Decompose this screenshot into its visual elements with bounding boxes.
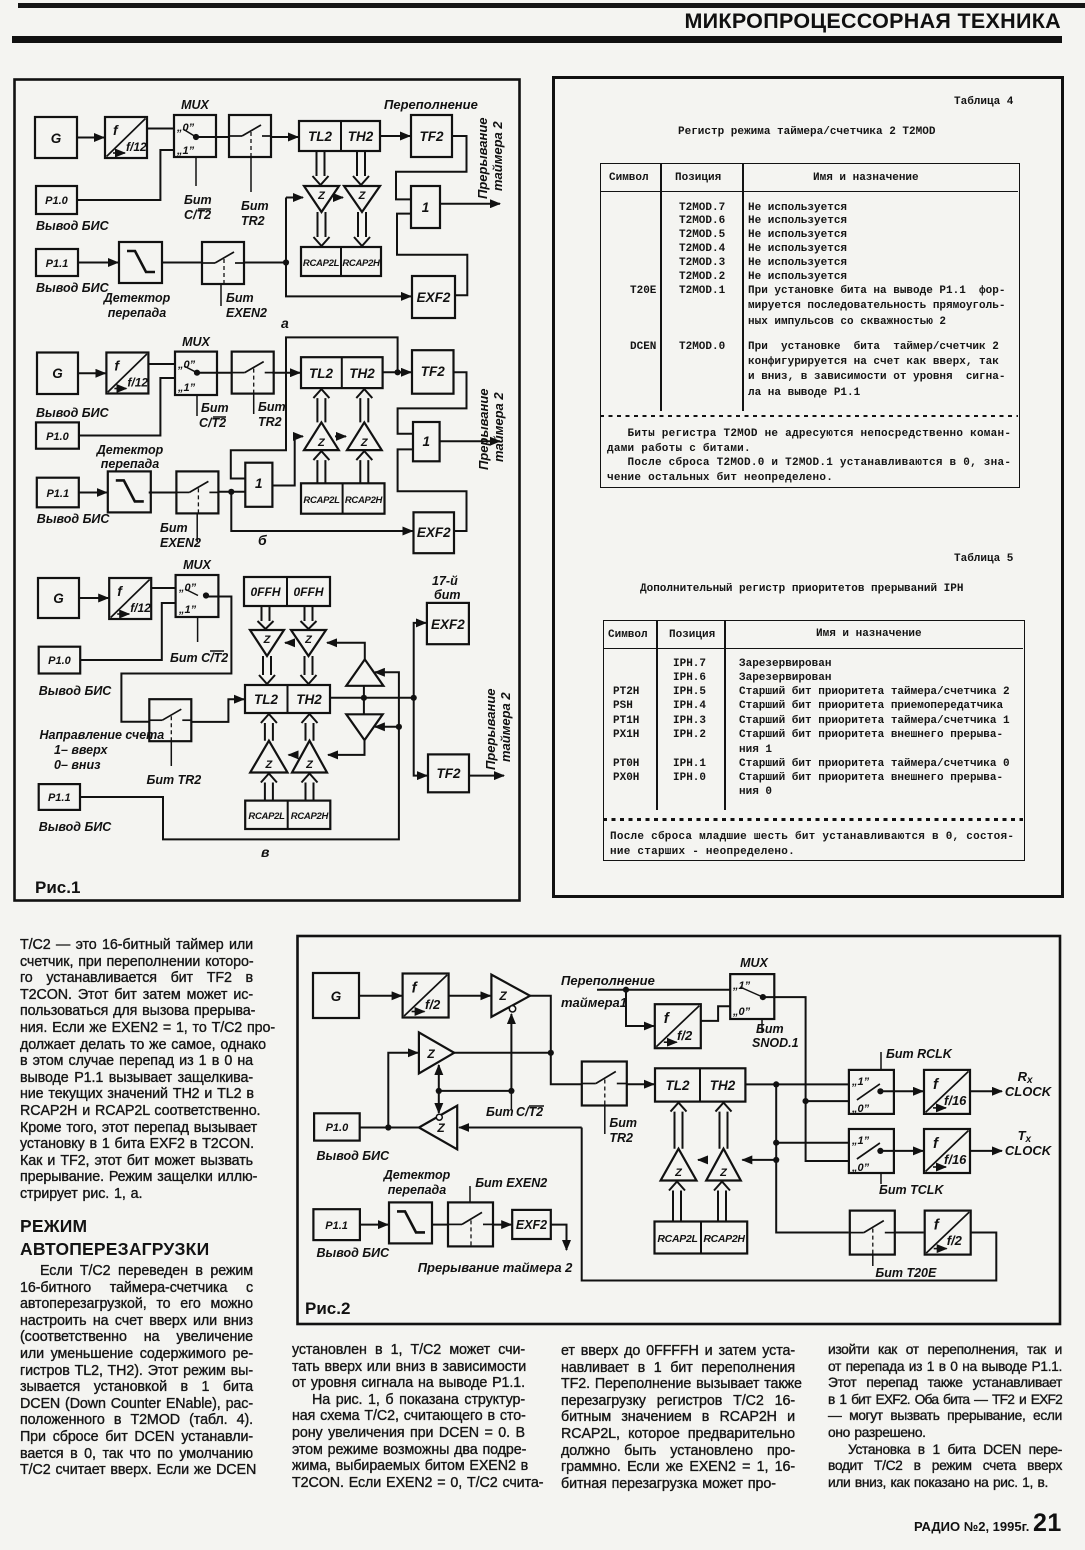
svg-text:C/T2: C/T2 [516, 1105, 543, 1119]
svg-text:в: в [261, 844, 270, 860]
svg-text:Бит C/T2: Бит C/T2 [170, 651, 228, 665]
svg-text:Детектор: Детектор [96, 443, 164, 457]
svg-text:Направление счета: Направление счета [40, 728, 165, 742]
svg-text:RCAP2L: RCAP2L [248, 811, 285, 822]
wire f/16 to Tx [970, 1150, 1002, 1152]
svg-text:Вывод БИС: Вывод БИС [39, 684, 113, 698]
divider f/12 [105, 117, 147, 158]
svg-text:f/2: f/2 [425, 997, 441, 1012]
block G (б) [37, 353, 78, 395]
svg-text:TL2: TL2 [309, 366, 333, 381]
svg-text:Вывод БИС: Вывод БИС [36, 281, 110, 295]
node a junction [283, 259, 289, 265]
svg-text:1: 1 [422, 200, 430, 215]
hollow arrow Z to TL2 fig2 [671, 1103, 687, 1149]
wire TH2 to TF2 a [380, 135, 410, 137]
port P1.1 (в) [39, 784, 80, 810]
svg-text:„0”: „0” [177, 359, 196, 371]
svg-text:TR2: TR2 [609, 1131, 633, 1145]
svg-text:Z: Z [358, 190, 367, 202]
control stub EXEN2 a [220, 284, 222, 306]
hollow arrow OFFH to Z left (в) [258, 606, 274, 629]
svg-text:Переполнение: Переполнение [561, 973, 655, 988]
register TL2 TH2 (в) [245, 685, 330, 713]
divider f/16 tx [924, 1129, 970, 1173]
label Прерывание таймера 2 (в) [483, 689, 513, 771]
node latch strobe branch fig2 [773, 1157, 779, 1163]
wire C/T2 control line [439, 1090, 512, 1092]
divider f/12 (в) [109, 578, 151, 619]
svg-text:RCAP2L: RCAP2L [303, 495, 340, 506]
flag EXF2 (б) [414, 512, 455, 553]
table 5 [954, 553, 1013, 565]
svg-text:RCAP2H: RCAP2H [703, 1233, 745, 1245]
wire OR1 to latch strobe (б) [272, 436, 303, 485]
wire RCLK to f/16 [880, 1090, 923, 1092]
svg-text:TH2: TH2 [348, 129, 374, 144]
svg-text:TR2: TR2 [258, 415, 282, 429]
hollow arrow RCAP2H to Z (б) [356, 451, 372, 483]
node Z1-Z2 join [548, 1050, 554, 1056]
control stub EXEN2 (б) [196, 514, 198, 542]
node RCLK 0 branch [803, 1098, 809, 1104]
port P1.1 a [36, 249, 78, 276]
switch RCLK [849, 1070, 894, 1114]
wire EXF2 interrupt out fig2 [551, 1225, 567, 1250]
wire switch TR2 to TL2 fig2 [627, 1083, 654, 1085]
svg-text:17-й: 17-й [432, 574, 458, 588]
node TCLK wiper [877, 1148, 883, 1154]
register RCAP2L RCAP2H a [301, 247, 381, 276]
svg-text:Рис.2: Рис.2 [305, 1299, 350, 1318]
svg-text:Бит: Бит [609, 1116, 637, 1130]
block G (oscillator) [35, 117, 77, 158]
hollow arrow RCAP2L to Z (б) [313, 451, 329, 483]
svg-text:Вывод БИС: Вывод БИС [36, 219, 110, 233]
wire Z3 to P1.0 [360, 1127, 419, 1129]
svg-text:„1”: „1” [851, 1135, 870, 1147]
register TL2 TH2 fig2 [655, 1068, 745, 1101]
node EXEN2 branch (б) [228, 489, 234, 495]
switch EXEN2 fig2 [448, 1202, 493, 1246]
control stub EXEN2 fig2 [469, 1186, 471, 1202]
svg-text:таймера 2: таймера 2 [498, 692, 513, 762]
wire TF2 to OR gate a [396, 136, 467, 199]
node direction control (в) [396, 724, 402, 730]
svg-text:TH2: TH2 [349, 366, 375, 381]
node TH2 branch [773, 1081, 779, 1087]
svg-text:EXF2: EXF2 [417, 290, 451, 305]
control stub T2OE [872, 1255, 874, 1267]
wire into Z3 [459, 1127, 582, 1129]
wire G to f/2 [359, 995, 402, 997]
hollow arrow RCAP2L to Zup (в) [261, 774, 277, 801]
wire switch EXEN2 to OR1 (б) [218, 491, 245, 493]
svg-text:Прерывание: Прерывание [475, 118, 490, 200]
label Прерывание таймера 2 (a) [475, 118, 505, 200]
wire f/2 to MUX 0 [701, 1006, 730, 1021]
wire P1.1 to detector (б) [79, 492, 107, 494]
hollow arrow Z to TL2 (б) [313, 389, 329, 422]
svg-text:Бит: Бит [201, 401, 229, 415]
flag TF2 a [411, 115, 452, 157]
control stub TCLK [880, 1173, 882, 1184]
wire P1.0 to Z2 [388, 1053, 418, 1128]
svg-text:EXEN2: EXEN2 [226, 306, 267, 320]
svg-text:C/T2: C/T2 [199, 416, 226, 430]
svg-text:Z: Z [719, 1167, 728, 1179]
svg-text:Бит T20E: Бит T20E [875, 1266, 937, 1280]
edge detector (б) [108, 471, 151, 512]
svg-text:TH2: TH2 [296, 692, 322, 707]
svg-text:0– вниз: 0– вниз [54, 758, 101, 772]
control stub SMOD [761, 1019, 763, 1033]
svg-text:f/12: f/12 [127, 376, 148, 390]
latch Z a right [344, 186, 380, 212]
svg-text:P1.0: P1.0 [326, 1122, 350, 1134]
hollow arrow RCAP2H to Z fig2 [714, 1182, 730, 1222]
wire control to Z1 [510, 1014, 512, 1091]
node MUX a output [193, 134, 199, 140]
svg-text:P1.1: P1.1 [325, 1220, 348, 1232]
svg-text:Детектор: Детектор [383, 1168, 451, 1182]
flag TF2 (в) [428, 754, 469, 792]
divider f/2 out [925, 1211, 971, 1255]
wire TH2 branch down to T2OE [776, 1084, 849, 1232]
wire G to f/12 [77, 137, 104, 139]
control stub TR2 a [250, 157, 252, 192]
wire MUX a to switch TR2 [196, 136, 229, 138]
svg-text:Z: Z [317, 190, 326, 202]
switch T2OE [850, 1211, 895, 1255]
wire f/2 to buffer Z1 [449, 995, 491, 997]
svg-text:Бит: Бит [756, 1022, 784, 1036]
latch Z a left [304, 186, 339, 212]
wire P1.0 to MUX (б) [79, 378, 175, 436]
svg-text:CLOCK: CLOCK [1005, 1143, 1053, 1158]
wire P1.1 direction control (в) [80, 672, 399, 839]
svg-text:SNOD.1: SNOD.1 [752, 1036, 799, 1050]
register TL2 TH2 a [299, 121, 380, 151]
svg-text:Z: Z [498, 989, 507, 1003]
wire switch to TL2 (б) [272, 372, 300, 374]
wire detector to switch EXEN2 a [162, 262, 202, 264]
svg-text:Z: Z [360, 437, 369, 449]
wire TH2 to TF2 (б) [383, 371, 411, 373]
label Прерывание таймера 2 (б) [476, 389, 506, 471]
svg-text:таймера 2: таймера 2 [491, 392, 506, 462]
buffer Z2 [419, 1032, 454, 1073]
svg-text:P1.0: P1.0 [45, 195, 69, 207]
wire arrow to down-buffer (в) [375, 726, 399, 728]
MUX (б) [175, 352, 217, 395]
svg-text:„0”: „0” [176, 122, 195, 134]
svg-text:G: G [53, 591, 64, 606]
wire arrow between Z down (в) [285, 642, 291, 644]
wire to RCLK 0 input [806, 1100, 849, 1102]
svg-text:CLOCK: CLOCK [1005, 1084, 1053, 1099]
svg-text:f/16: f/16 [944, 1152, 967, 1167]
wire to EXF2 (в) [414, 623, 426, 698]
svg-text:TL2: TL2 [254, 692, 278, 707]
hollow arrow RCAP2L to Z fig2 [669, 1182, 685, 1222]
register TL2 TH2 (б) [301, 357, 383, 388]
inverter circle Z3 [436, 1114, 442, 1120]
divider f/2 input [403, 974, 449, 1018]
svg-text:EXEN2: EXEN2 [160, 536, 201, 550]
control stub RCLK [880, 1052, 882, 1070]
MUX (в) [176, 575, 219, 617]
svg-text:TF2: TF2 [419, 129, 443, 144]
svg-text:TH2: TH2 [710, 1078, 736, 1093]
control stub TR2 fig2 [604, 1106, 606, 1135]
svg-text:перепада: перепада [108, 306, 166, 320]
wire arrow between Z a [334, 197, 343, 199]
buffer down (в) [346, 714, 382, 740]
hollow arrow Z to TH2 fig2 [716, 1103, 732, 1149]
wire TH2 to RCLK 1 [745, 1083, 849, 1085]
hollow arrow Zup to TH2 (в) [302, 714, 318, 741]
divider f/2 smod [655, 1004, 701, 1048]
node TCLK 1 branch [773, 1140, 779, 1146]
svg-text:EXF2: EXF2 [516, 1218, 547, 1232]
svg-text:таймера1: таймера1 [561, 995, 627, 1010]
edge detector fig2 [389, 1202, 432, 1243]
svg-text:P1.1: P1.1 [48, 792, 71, 804]
svg-text:TF2: TF2 [436, 766, 460, 781]
node P1.0 branch [385, 1124, 391, 1130]
svg-text:Бит: Бит [486, 1105, 514, 1119]
switch TCLK [849, 1129, 894, 1173]
wire Z2 output [454, 1052, 551, 1054]
svg-text:RCAP2H: RCAP2H [345, 495, 384, 506]
svg-text:Бит EXEN2: Бит EXEN2 [475, 1176, 547, 1190]
svg-text:Рис.1: Рис.1 [35, 878, 80, 897]
svg-text:б: б [258, 532, 267, 548]
wire f to MUX (в) [151, 587, 176, 589]
svg-text:TL2: TL2 [308, 129, 332, 144]
node on TF2 wire (б) [395, 369, 401, 375]
block G (в) [38, 578, 79, 618]
svg-text:RCAP2H: RCAP2H [342, 258, 381, 269]
svg-text:f/12: f/12 [126, 140, 147, 154]
wire MUX to switch TR2 (в) [121, 597, 231, 722]
svg-text:RCAP2L: RCAP2L [657, 1233, 697, 1245]
svg-text:Вывод БИС: Вывод БИС [37, 512, 111, 526]
svg-text:f/2: f/2 [677, 1028, 693, 1043]
wire OR2 output interrupt (б) [440, 440, 500, 442]
svg-text:Вывод БИС: Вывод БИС [317, 1149, 391, 1163]
port P1.0 (в) [39, 647, 80, 674]
svg-text:Z: Z [436, 1121, 445, 1135]
or-gate 1 right (б) [413, 422, 440, 461]
svg-text:Z: Z [674, 1167, 683, 1179]
node MUX fig2 output [760, 994, 766, 1000]
control stub C/T2 a [195, 157, 197, 186]
node ctl left [436, 1088, 442, 1094]
svg-text:„1”: „1” [176, 145, 195, 157]
svg-text:P1.0: P1.0 [46, 431, 70, 443]
wire overflow loop to OR1 (б) [231, 337, 398, 478]
svg-text:перепада: перепада [101, 457, 159, 471]
svg-text:Бит: Бит [258, 400, 286, 414]
wire TCLK to f/16 [880, 1150, 923, 1152]
wire switch EXEN2 to node a [244, 262, 286, 264]
wire Z2 control [438, 1065, 440, 1091]
wire arrow between Z (б) [335, 435, 346, 437]
MUX (fig2) [730, 974, 774, 1019]
wire to TF2 (в) [414, 698, 427, 776]
svg-text:Бит TR2: Бит TR2 [147, 773, 202, 787]
flag EXF2 fig2 [512, 1210, 551, 1239]
or-gate 1 left (б) [245, 463, 272, 507]
wire TF2 to OR2 (б) [398, 372, 467, 433]
switch EXEN2 a [202, 242, 244, 284]
hollow arrow TH2 to Z [353, 151, 369, 185]
wire f/16 to Rx [970, 1090, 1002, 1092]
wire to TCLK 1 input [776, 1142, 849, 1144]
port P1.1 fig2 [313, 1209, 360, 1240]
svg-text:P1.1: P1.1 [46, 488, 69, 500]
buffer Z3 [419, 1106, 457, 1150]
svg-text:„0”: „0” [851, 1103, 870, 1115]
svg-text:1: 1 [423, 434, 431, 449]
wire to EXF2 (б) [231, 492, 412, 531]
figure 1 frame [15, 80, 520, 901]
wire EXF2 to OR2 (б) [398, 449, 467, 531]
wire clock out feedback [582, 1128, 997, 1281]
wire switch TR2 to TL2 [271, 136, 298, 138]
svg-text:бит: бит [434, 588, 461, 602]
figure 2 frame [298, 936, 1061, 1324]
svg-text:G: G [52, 366, 63, 381]
hollow arrow Z to TL2 (в) [259, 656, 275, 684]
svg-text:Прерывание таймера 2: Прерывание таймера 2 [418, 1260, 573, 1275]
svg-text:f/12: f/12 [130, 601, 151, 615]
svg-text:MUX: MUX [740, 956, 768, 970]
wire buffers tie vertical (в) [363, 686, 365, 715]
svg-text:MUX: MUX [182, 335, 210, 349]
svg-text:Бит: Бит [160, 521, 188, 535]
svg-text:1– вверх: 1– вверх [54, 743, 108, 757]
svg-text:Вывод БИС: Вывод БИС [36, 406, 110, 420]
wire EXF2 to OR a [397, 214, 467, 296]
or-gate 1 a [411, 186, 440, 228]
wire up-buffer to Z strobe (в) [327, 643, 365, 660]
svg-text:„0”: „0” [178, 582, 197, 594]
svg-text:Z: Z [263, 634, 272, 646]
svg-text:P1.1: P1.1 [46, 258, 69, 270]
control stub C/T2 fig2 [510, 1091, 512, 1110]
wire Z3 control [438, 1091, 440, 1113]
hollow arrow RCAP2H to Zup (в) [302, 774, 318, 801]
svg-text:Бит: Бит [184, 193, 212, 207]
svg-text:Прерывание: Прерывание [476, 389, 491, 471]
svg-text:„1”: „1” [851, 1076, 870, 1088]
hollow arrow TL2 to Z [313, 151, 329, 185]
register RCAP2L RCAP2H (б) [301, 483, 385, 513]
register RCAP2L RCAP2H (в) [245, 801, 330, 829]
register RCAP2L RCAP2H fig2 [655, 1222, 748, 1254]
wire detector to switch fig2 [432, 1224, 448, 1226]
svg-text:Z: Z [265, 759, 274, 771]
svg-text:Прерывание: Прерывание [483, 689, 498, 771]
wire T2OE to f/2 [895, 1232, 924, 1234]
wire G to f (б) [78, 372, 105, 374]
wire P1.0 to MUX a [77, 150, 174, 200]
svg-text:„0”: „0” [851, 1162, 870, 1174]
svg-text:MUX: MUX [183, 558, 211, 572]
svg-text:G: G [51, 131, 62, 146]
wire OR output interrupt a [440, 203, 500, 205]
wire latch strobe a [286, 198, 411, 297]
divider f/12 (б) [106, 353, 148, 394]
hollow arrow Z to RCAP2L [314, 212, 330, 246]
svg-text:Бит: Бит [226, 291, 254, 305]
buffer Z1 [491, 975, 530, 1017]
latch Z up left fig2 [661, 1149, 697, 1181]
control stub TR2 (в) [170, 741, 172, 766]
svg-text:Переполнение: Переполнение [384, 97, 478, 112]
hollow arrow Z to TH2 (в) [301, 656, 317, 684]
wire arrow between Z up (в) [289, 754, 294, 756]
control stub C/T2 (б) [196, 395, 198, 416]
svg-text:RCAP2L: RCAP2L [303, 258, 340, 269]
port P1.1 (б) [37, 478, 79, 508]
latch Z up right (в) [292, 741, 327, 773]
svg-text:Бит: Бит [241, 199, 269, 213]
table 4 [954, 96, 1013, 108]
block G (fig2) [313, 973, 359, 1018]
buffer up (в) [346, 659, 383, 685]
MUX a [174, 115, 216, 157]
switch TR2 (б) [232, 352, 274, 394]
latch Z down right (в) [291, 630, 326, 656]
svg-text:TL2: TL2 [665, 1078, 689, 1093]
svg-text:G: G [331, 989, 342, 1004]
wire overflow to f/2 [626, 990, 654, 1026]
node MUX б output [194, 370, 200, 376]
wire f/12 to MUX a [147, 128, 174, 130]
latch Z up left (б) [304, 422, 339, 450]
hollow arrow Zup to TL2 (в) [261, 714, 277, 741]
edge detector a [119, 242, 162, 283]
wire TF2 interrupt out (в) [469, 775, 504, 777]
wire switch to TL2 (в) [191, 699, 244, 722]
svg-text:TF2: TF2 [421, 364, 445, 379]
node RCLK wiper [877, 1088, 883, 1094]
hollow arrow Z to RCAP2H [354, 212, 370, 246]
switch TR2 (в) [149, 699, 191, 741]
svg-text:Z: Z [317, 437, 326, 449]
inverter circle Z1 [509, 1006, 515, 1012]
svg-text:0FFH: 0FFH [294, 585, 324, 599]
wire P1.1 to detector fig2 [360, 1224, 388, 1226]
svg-text:1: 1 [255, 476, 263, 491]
divider f/16 rx [924, 1070, 970, 1114]
svg-text:Z: Z [426, 1047, 435, 1061]
svg-text:EXF2: EXF2 [417, 525, 451, 540]
wire down-buffer to Zup strobe (в) [328, 740, 365, 755]
wire strobe to Z right fig2 [742, 1159, 776, 1161]
svg-text:EXF2: EXF2 [431, 617, 465, 632]
svg-text:Бит TCLK: Бит TCLK [879, 1183, 944, 1197]
svg-text:RCAP2H: RCAP2H [291, 811, 330, 822]
svg-text:C/T2: C/T2 [184, 208, 211, 222]
port P1.0 (б) [36, 422, 79, 448]
wire MUX to switch (б) [197, 372, 232, 374]
svg-text:f/2: f/2 [947, 1233, 963, 1248]
